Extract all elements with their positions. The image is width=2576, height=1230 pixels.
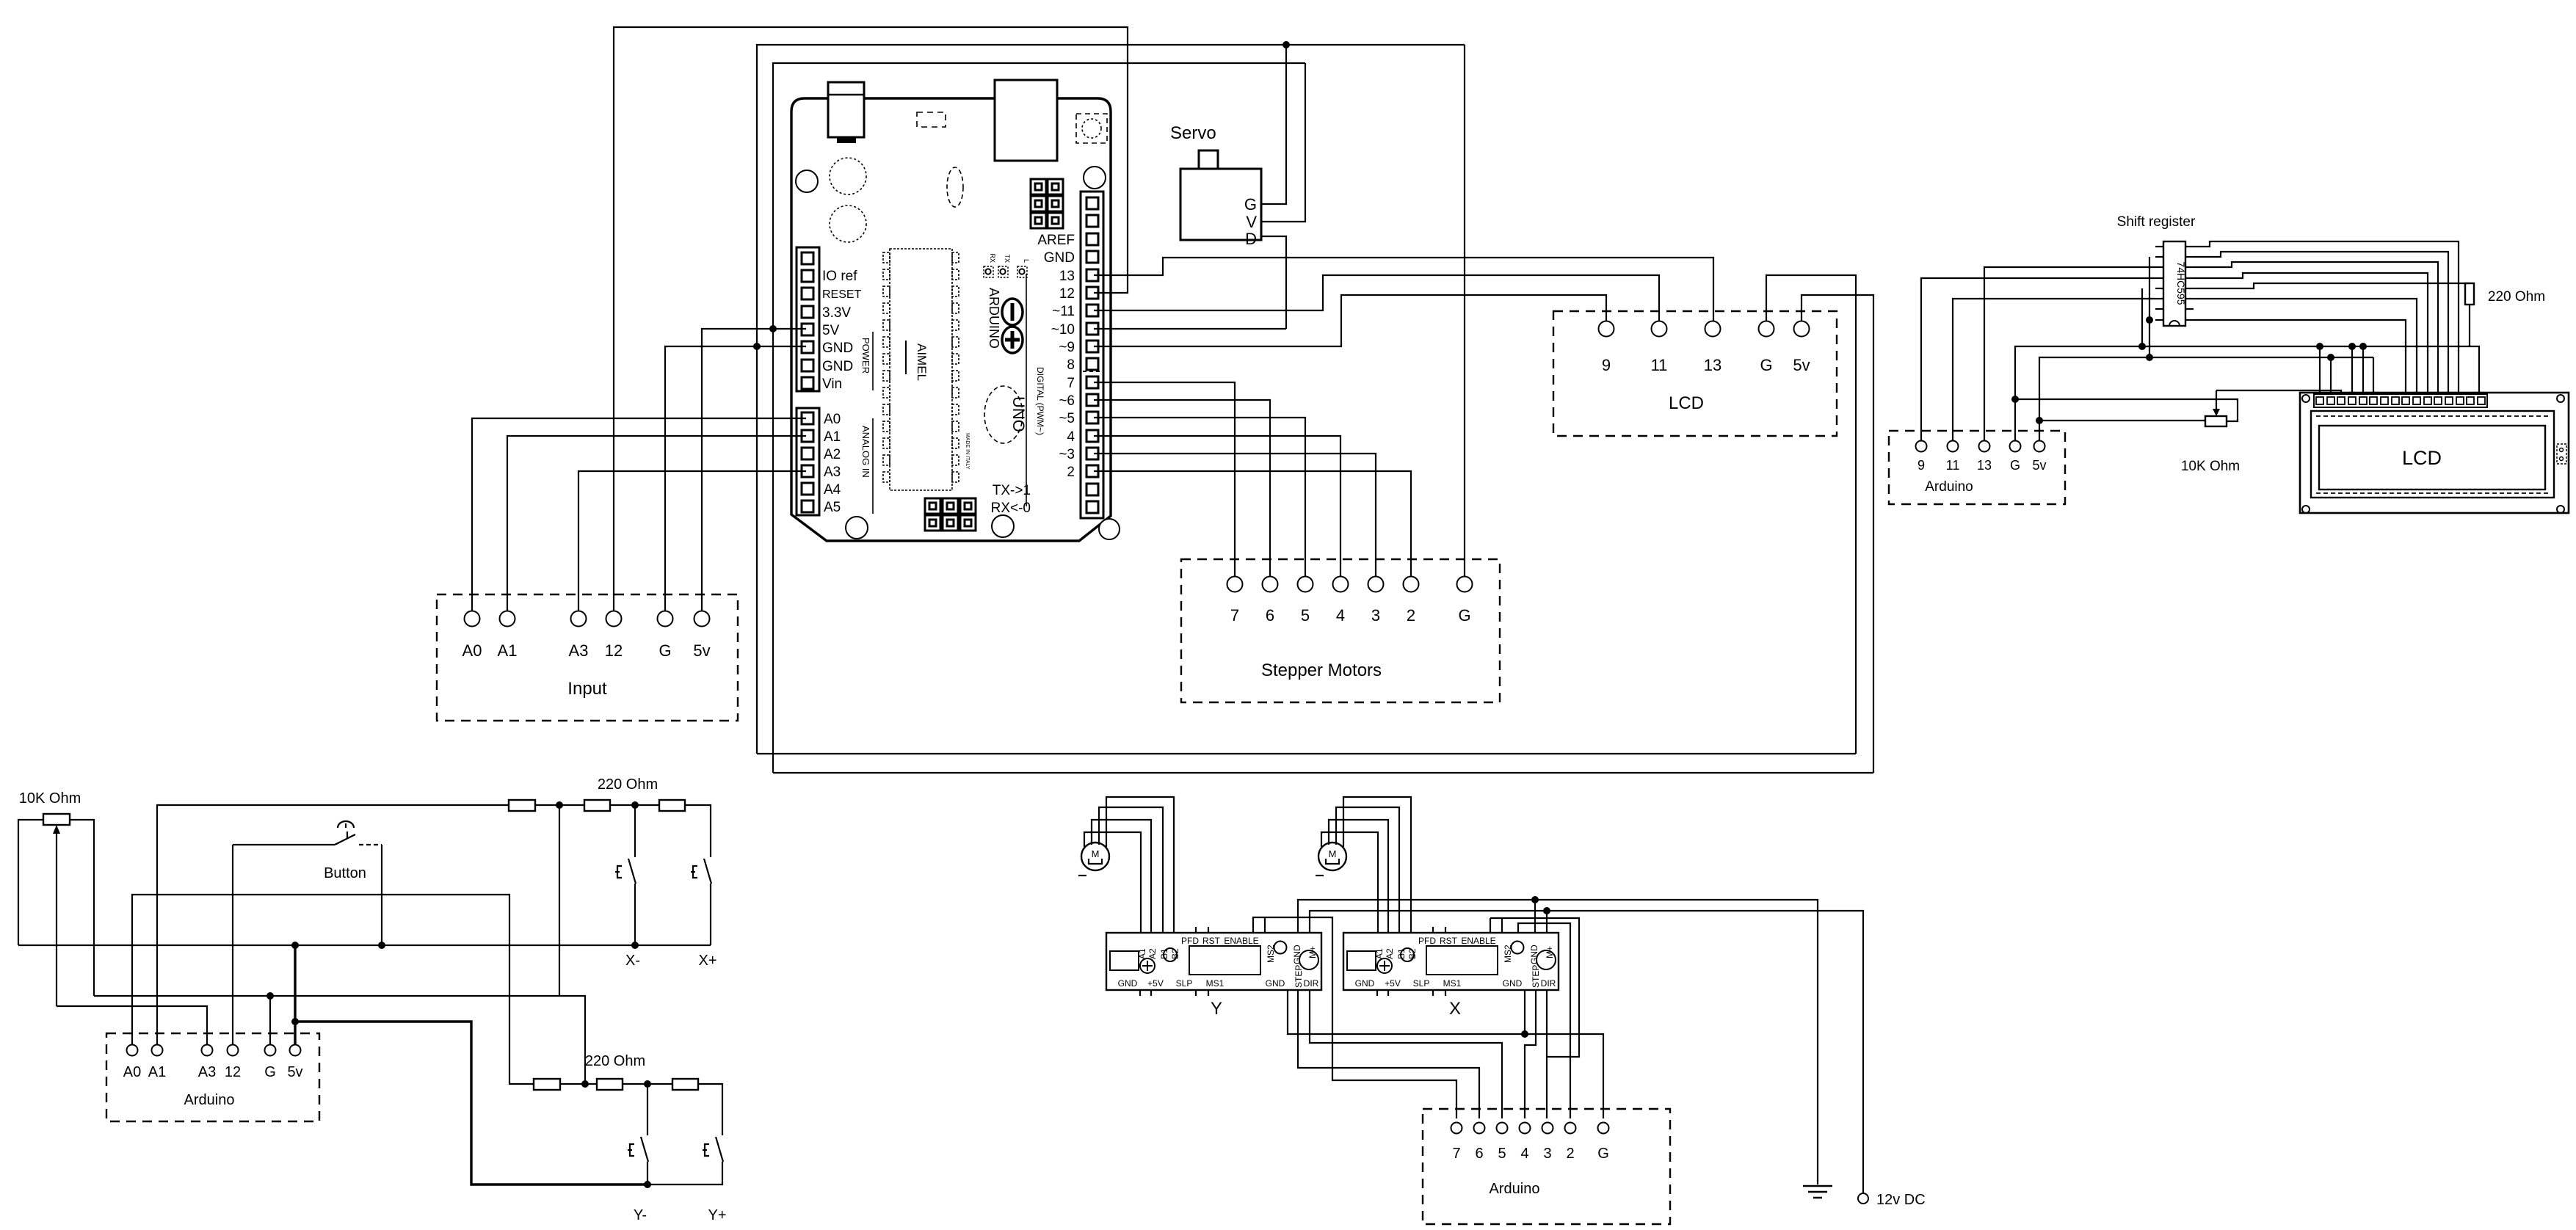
svg-text:STEP: STEP [1294,965,1304,988]
svg-text:GND: GND [822,359,853,374]
svg-text:AREF: AREF [1037,233,1075,248]
svg-text:M+: M+ [1545,946,1555,958]
svg-text:DIR: DIR [1304,978,1319,989]
svg-text:A1: A1 [498,641,518,660]
svg-text:220 Ohm: 220 Ohm [598,776,658,793]
svg-text:GND: GND [1503,978,1523,989]
svg-text:A1: A1 [824,429,841,445]
svg-text:A3: A3 [824,465,841,480]
svg-text:4: 4 [1336,606,1345,625]
svg-text:AIMEL: AIMEL [915,343,929,381]
svg-text:5v: 5v [2032,458,2046,473]
svg-text:IO ref: IO ref [822,269,857,284]
svg-text:12: 12 [1059,286,1075,302]
svg-text:GND: GND [1292,945,1302,964]
svg-text:12: 12 [605,641,623,660]
svg-text:~3: ~3 [1059,447,1075,462]
svg-text:9: 9 [1918,458,1925,473]
svg-text:RESET: RESET [822,288,862,301]
svg-text:~9: ~9 [1059,340,1075,355]
svg-text:5: 5 [1498,1146,1506,1162]
svg-text:A5: A5 [824,500,841,515]
svg-text:Shift register: Shift register [2117,214,2196,230]
svg-text:4: 4 [1067,429,1075,445]
svg-text:G: G [264,1064,276,1080]
svg-text:10K Ohm: 10K Ohm [19,790,81,807]
svg-text:5v: 5v [1793,356,1810,374]
svg-text:A2: A2 [1385,948,1395,959]
svg-text:M+: M+ [1307,946,1318,958]
svg-text:7: 7 [1230,606,1239,625]
svg-text:X+: X+ [698,953,716,969]
svg-text:Stepper Motors: Stepper Motors [1261,661,1382,680]
svg-text:A0: A0 [824,412,841,427]
svg-text:A1: A1 [1137,948,1147,959]
svg-text:Arduino: Arduino [184,1092,235,1108]
svg-text:7: 7 [1452,1146,1460,1162]
svg-text:13: 13 [1059,269,1075,284]
svg-text:+5V: +5V [1147,978,1164,989]
svg-text:L: L [1023,259,1030,263]
svg-text:~6: ~6 [1059,393,1075,409]
svg-text:Input: Input [567,679,607,699]
svg-text:~5: ~5 [1059,411,1075,426]
svg-text:G: G [658,641,671,660]
svg-text:D: D [1245,230,1257,248]
svg-text:220 Ohm: 220 Ohm [585,1053,645,1069]
svg-text:A3: A3 [569,641,589,660]
svg-text:B2: B2 [1170,948,1180,959]
svg-text:3.3V: 3.3V [822,305,851,321]
svg-text:2: 2 [1566,1146,1574,1162]
svg-text:GND: GND [822,341,853,356]
svg-text:ENABLE: ENABLE [1461,936,1495,946]
svg-text:Y-: Y- [634,1207,647,1223]
svg-text:TX->1: TX->1 [993,483,1031,498]
svg-text:Vin: Vin [822,376,842,392]
svg-text:220 Ohm: 220 Ohm [2488,289,2545,305]
svg-text:G: G [1597,1146,1609,1162]
svg-text:GND: GND [1355,978,1375,989]
svg-text:PFD: PFD [1181,936,1199,946]
svg-text:A0: A0 [462,641,482,660]
svg-text:ARDUINO: ARDUINO [987,288,1001,349]
svg-text:5v: 5v [693,641,710,660]
svg-text:5v: 5v [287,1064,302,1080]
svg-text:SLP: SLP [1176,978,1193,989]
svg-text:2: 2 [1067,465,1075,480]
svg-text:DIGITAL (PWM~): DIGITAL (PWM~) [1035,367,1045,435]
svg-text:A1: A1 [1374,948,1385,959]
svg-text:11: 11 [1651,356,1668,374]
svg-text:UNO: UNO [1009,396,1028,432]
svg-text:GND: GND [1118,978,1138,989]
svg-text:A0: A0 [123,1064,141,1080]
svg-text:MS2: MS2 [1266,945,1276,963]
svg-text:8: 8 [1067,357,1075,373]
svg-text:A3: A3 [198,1064,216,1080]
svg-text:5V: 5V [822,323,840,338]
svg-text:~11: ~11 [1052,304,1075,319]
svg-text:6: 6 [1266,606,1274,625]
svg-text:MS1: MS1 [1443,978,1462,989]
svg-text:Servo: Servo [1170,123,1216,143]
svg-text:SLP: SLP [1413,978,1430,989]
svg-text:~10: ~10 [1051,322,1075,338]
svg-text:RX: RX [989,253,996,263]
svg-text:12: 12 [225,1064,241,1080]
svg-text:PFD: PFD [1418,936,1436,946]
svg-text:MS2: MS2 [1503,945,1513,963]
svg-text:G: G [1760,356,1772,374]
svg-text:Y: Y [1211,999,1222,1019]
svg-text:A4: A4 [824,482,841,498]
svg-text:GND: GND [1266,978,1285,989]
svg-text:10K Ohm: 10K Ohm [2181,459,2240,474]
svg-text:DIR: DIR [1541,978,1556,989]
svg-text:13: 13 [1704,356,1721,374]
svg-text:RST: RST [1440,936,1458,946]
svg-text:RX<-0: RX<-0 [991,501,1031,516]
svg-text:Arduino: Arduino [1490,1181,1540,1197]
svg-text:3: 3 [1371,606,1380,625]
svg-text:12v DC: 12v DC [1876,1192,1926,1208]
svg-text:Y+: Y+ [708,1207,726,1223]
svg-text:G: G [1244,195,1257,214]
svg-text:Arduino: Arduino [1925,479,1973,495]
svg-text:B1: B1 [1159,948,1169,959]
svg-text:6: 6 [1475,1146,1483,1162]
svg-text:MADE IN ITALY: MADE IN ITALY [965,433,970,470]
svg-text:M: M [1329,848,1337,859]
svg-text:X: X [1449,999,1461,1019]
svg-text:TX: TX [1004,254,1011,263]
svg-text:5: 5 [1301,606,1310,625]
svg-text:B2: B2 [1407,948,1418,959]
svg-text:74HC595: 74HC595 [2175,261,2187,305]
svg-text:4: 4 [1520,1146,1528,1162]
svg-text:V: V [1246,213,1257,231]
svg-text:POWER: POWER [860,338,871,374]
svg-text:X-: X- [625,953,640,969]
svg-text:M: M [1092,848,1100,859]
svg-text:ENABLE: ENABLE [1224,936,1258,946]
svg-text:ANALOG IN: ANALOG IN [860,426,871,478]
svg-text:LCD: LCD [2402,447,2442,469]
svg-text:A2: A2 [824,447,841,462]
svg-text:13: 13 [1977,458,1992,473]
svg-text:7: 7 [1067,376,1075,391]
svg-text:G: G [2010,458,2020,473]
svg-text:A1: A1 [148,1064,166,1080]
svg-text:2: 2 [1407,606,1415,625]
svg-text:11: 11 [1946,458,1960,473]
svg-text:A2: A2 [1147,948,1158,959]
svg-text:GND: GND [1529,945,1539,964]
svg-text:9: 9 [1602,356,1611,374]
svg-text:MS1: MS1 [1206,978,1224,989]
svg-text:B1: B1 [1396,948,1407,959]
svg-text:LCD: LCD [1669,393,1704,413]
svg-text:RST: RST [1202,936,1221,946]
svg-text:STEP: STEP [1531,965,1541,988]
svg-text:+5V: +5V [1385,978,1401,989]
svg-text:Button: Button [324,865,366,881]
svg-text:3: 3 [1543,1146,1551,1162]
svg-text:G: G [1458,606,1470,625]
svg-text:GND: GND [1044,250,1075,266]
